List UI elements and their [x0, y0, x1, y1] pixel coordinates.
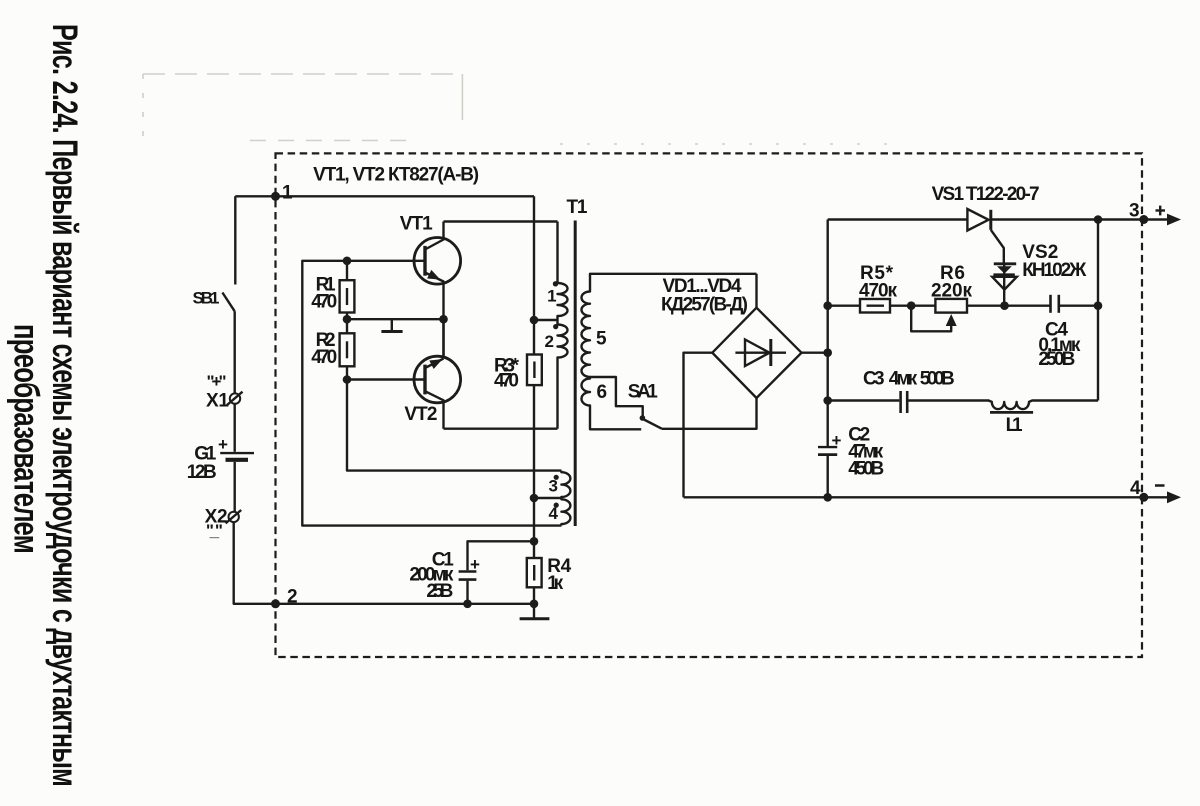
node VT1 emitter / VT2 collector: [439, 315, 448, 324]
svg-text:1: 1: [547, 287, 556, 306]
connector X1: [206, 372, 243, 412]
node C1 branch: [530, 537, 539, 546]
wire VT1 collector to winding 1 top: [444, 220, 558, 222]
ground symbol mid: [381, 319, 402, 331]
wire G1 to X2: [233, 462, 235, 512]
svg-text:С3: С3: [863, 369, 885, 390]
winding 4: [549, 498, 571, 526]
svg-text:450В: 450В: [848, 459, 884, 480]
winding 1: [547, 222, 567, 321]
svg-text:3: 3: [549, 476, 558, 495]
wire top rail from node 1 to main vertical: [235, 195, 534, 197]
winding 2: [545, 320, 568, 429]
ground symbol bottom: [520, 604, 550, 619]
svg-text:"+": "+": [207, 372, 227, 391]
svg-text:L1: L1: [1006, 415, 1023, 436]
resistor R2: [311, 319, 354, 379]
svg-text:Т1: Т1: [567, 197, 588, 218]
svg-text:Х1: Х1: [206, 391, 229, 412]
node R4 bottom: [530, 600, 539, 609]
svg-text:VT2: VT2: [404, 404, 437, 425]
wire main vertical mid segment: [533, 385, 535, 558]
wire VT1 base rail to left loop down to winding 4: [302, 261, 561, 526]
node R1 top / VT1 base: [343, 257, 352, 266]
wire bridge left to minus frame: [684, 353, 713, 498]
node 1: [271, 183, 293, 204]
bridge rectifier VD1...VD4: [661, 276, 802, 398]
svg-text:VS1 Т122-20-7: VS1 Т122-20-7: [932, 184, 1040, 205]
bottom minus bus: [684, 496, 1144, 498]
dashed enclosure border: [276, 153, 1143, 657]
node R2 bottom / VT2 base: [343, 375, 352, 384]
wire bridge top to winding 5 rail: [755, 274, 757, 308]
svg-text:+: +: [218, 435, 228, 454]
node bus C3 row: [823, 396, 832, 405]
wire R4 to bottom rail: [533, 587, 535, 604]
svg-text:3: 3: [1129, 201, 1140, 222]
resistor R1: [311, 261, 354, 319]
node right bus top: [1094, 215, 1103, 224]
potentiometer R6: [911, 263, 1050, 331]
svg-text:470: 470: [311, 292, 337, 313]
svg-text:250В: 250В: [1038, 349, 1075, 370]
winding 6: [582, 377, 642, 429]
svg-text:КД257(В-Д): КД257(В-Д): [661, 295, 748, 316]
winding 3: [549, 471, 571, 498]
svg-text:25В: 25В: [426, 581, 453, 602]
scan artifact lines: [143, 74, 900, 144]
inductor L1: [989, 401, 1098, 437]
node 3 output: [1129, 201, 1181, 226]
wire SA1 to bridge bottom: [662, 398, 757, 429]
wire VT2 base to R2 junction: [347, 378, 425, 380]
node VS2 bottom: [1000, 301, 1009, 310]
wire VT2 emitter to winding 2 bottom: [444, 428, 558, 430]
capacitor C4: [1038, 295, 1098, 370]
node tap windings 1-2: [530, 316, 539, 325]
svg-text:4: 4: [1130, 478, 1141, 499]
wire bottom rail node2 to ground junction: [276, 603, 535, 605]
resistor R4: [527, 556, 572, 594]
transistor VT1: [400, 214, 461, 357]
svg-text:Рис. 2.24. Первый вариант схем: Рис. 2.24. Первый вариант схемы электроу…: [45, 24, 84, 786]
node bus bottom: [823, 493, 832, 502]
plus bus vertical: [827, 220, 829, 447]
node C4 right bus: [1094, 301, 1103, 310]
svg-text:1: 1: [282, 183, 293, 204]
svg-text:2: 2: [545, 332, 554, 351]
transistor VT2: [404, 319, 460, 429]
wire X2 down to bottom rail: [234, 522, 276, 604]
svg-text:470: 470: [494, 371, 519, 392]
node R1-R2 junction: [343, 315, 352, 324]
right bus vertical: [1097, 220, 1099, 401]
switch SA1: [628, 381, 662, 429]
capacitor C1: [409, 541, 534, 608]
wire bridge right to plus bus: [802, 352, 828, 354]
svg-text:470: 470: [311, 347, 337, 368]
switch SB1: [193, 289, 235, 312]
svg-text:6: 6: [597, 382, 608, 403]
node R5-R6 junction: [907, 301, 916, 310]
svg-text:+: +: [470, 555, 480, 574]
svg-text:VT1, VT2 КТ827(А-В): VT1, VT2 КТ827(А-В): [313, 164, 479, 185]
dynistor VS2: [992, 242, 1087, 306]
winding 5: [582, 274, 757, 377]
capacitor C3: [828, 369, 989, 414]
node bus R5 row: [823, 301, 832, 310]
svg-text:1к: 1к: [547, 573, 563, 594]
resistor R5*: [828, 263, 936, 313]
svg-text:4мк: 4мк: [889, 369, 918, 390]
svg-text:VT1: VT1: [400, 214, 433, 235]
svg-text:12В: 12В: [187, 462, 217, 483]
connector X2: [205, 507, 242, 541]
wire X1 to G1: [233, 404, 235, 452]
wire left battery branch upper: [234, 196, 236, 284]
wire R2 junction down to winding 3: [347, 380, 561, 471]
resistor R3*: [494, 355, 542, 392]
node 4 output: [1130, 478, 1181, 503]
svg-text:500В: 500В: [920, 369, 955, 390]
svg-text:5: 5: [596, 328, 607, 349]
svg-text:преобразователем: преобразователем: [7, 324, 46, 553]
svg-text:SB1: SB1: [193, 289, 220, 308]
capacitor C2: [818, 425, 884, 480]
svg-text:"_": "_": [206, 521, 223, 540]
wire tap winding3-4 to main vertical: [534, 497, 561, 499]
node tap windings 3-4: [530, 494, 539, 503]
battery G1: [187, 435, 254, 483]
wire tap winding5-6 to SA1 contact: [590, 377, 643, 417]
node 2: [271, 587, 298, 609]
wire tap winding1-2 to main vertical: [534, 319, 558, 321]
svg-text:4: 4: [549, 504, 559, 523]
node bus bridge row: [823, 348, 832, 357]
wire mid rail R1R2 junction to emitter junction: [347, 318, 444, 320]
wire main vertical upper segment: [533, 196, 535, 354]
transformer core: [574, 221, 577, 527]
wire SB1 to X1: [233, 311, 235, 393]
svg-text:КН102Ж: КН102Ж: [1022, 260, 1087, 281]
thyristor VS1: [828, 184, 1144, 263]
svg-text:SA1: SA1: [628, 381, 658, 402]
